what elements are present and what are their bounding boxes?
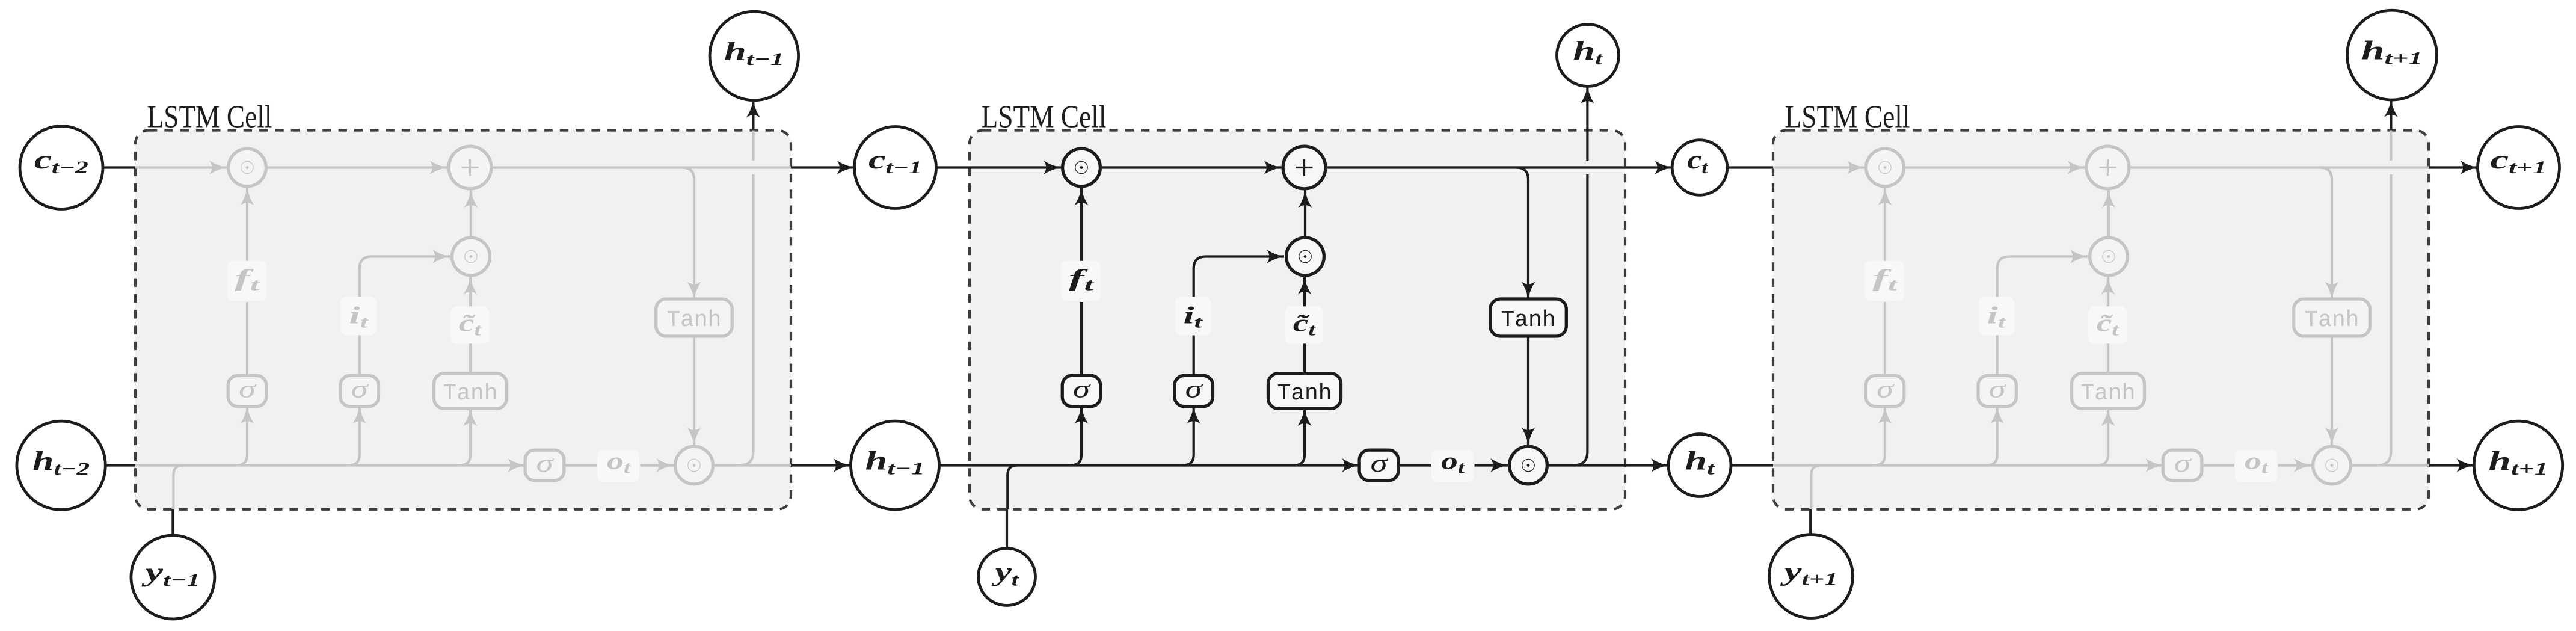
wire o_t to output product (641, 464, 674, 466)
svg-text:σ: σ (1371, 450, 1389, 478)
wire c-lane into first product node (1773, 166, 1864, 168)
elementwise product node (forget gate) (1063, 149, 1101, 186)
elementwise product node (forget gate) (1866, 149, 1904, 186)
label i_t (1175, 297, 1211, 335)
node h_t top output circle (1557, 25, 1619, 87)
wire left cell out to h_t-1 (791, 464, 851, 466)
wire arrow up into h_t-1 top (752, 100, 754, 131)
wire h branch up (crosses c-lane with gap) (1573, 174, 1587, 466)
Tanh box (candidate) (1268, 374, 1341, 409)
node c_t+1 circle (2478, 127, 2560, 209)
wire i_t from sigma up and right to candidate product (1996, 336, 1999, 376)
wire y input joining h-lane (1811, 466, 1821, 509)
Tanh box (candidate) (2072, 374, 2145, 409)
elementwise product node (output gate) (1510, 446, 1548, 484)
sigma box (output gate) (525, 450, 564, 481)
label c~_t (candidate) (1285, 306, 1323, 343)
sum node + (2086, 146, 2129, 189)
wire h_t-2 to left cell (105, 464, 135, 466)
node y_t+1 input circle (1769, 535, 1853, 618)
wire c-lane product to sum node (1905, 166, 2085, 168)
label c~_t (candidate) (2088, 306, 2127, 343)
sum node + (449, 146, 491, 189)
node h_t-1 circle (851, 421, 939, 509)
wire branch from h-lane up to gate box (237, 407, 248, 466)
wire sigma to o_t label (564, 464, 597, 466)
wire branch down to output Tanh (682, 168, 694, 300)
node y_t input circle (979, 549, 1036, 606)
node h_t+1 top output circle (2347, 10, 2437, 100)
wire branch down to output Tanh (2320, 168, 2332, 300)
svg-text:σ: σ (536, 450, 555, 478)
wire c-lane out of sum node (1327, 166, 1626, 168)
label o_t (2235, 450, 2277, 482)
wire f_t from sigma up to product node (1884, 302, 1886, 375)
elementwise product node (input gate x candidate) (1286, 238, 1324, 275)
svg-text:Tanh: Tanh (1277, 381, 1332, 407)
wire h branch up (crosses c-lane with gap) (2377, 174, 2391, 466)
wire h branch up (crosses c-lane with gap) (739, 174, 753, 466)
label o_t (1431, 450, 1474, 482)
wire y input joining h-lane (173, 466, 183, 509)
wire c-lane product to sum node (268, 166, 447, 168)
svg-text:LSTM Cell: LSTM Cell (1785, 100, 1910, 135)
wire y_t up to middle cell (1006, 509, 1008, 549)
elementwise product node (output gate) (2313, 446, 2351, 484)
svg-text:σ: σ (1989, 376, 2008, 404)
wire c-lane product to sum node (1102, 166, 1282, 168)
label f_t (1864, 261, 1904, 301)
wire f_t from sigma up to product node (1080, 302, 1083, 375)
svg-text:σ: σ (1877, 376, 1895, 404)
wire c_t-1 into middle cell (936, 166, 970, 168)
wire branch down to output Tanh (1516, 168, 1528, 300)
wire c-lane out of sum node (493, 166, 792, 168)
wire branch from h-lane up to gate box (1071, 407, 1082, 466)
svg-text:Tanh: Tanh (2305, 307, 2359, 333)
wire y_t+1 up to right cell (1809, 509, 1812, 535)
wire c_t-2 to left cell (103, 166, 135, 168)
wire branch from h-lane up to gate box (349, 407, 360, 466)
sigma box (forget gate) (228, 375, 266, 406)
wire h-lane into cell (1773, 464, 2163, 466)
svg-text:σ: σ (1073, 376, 1092, 404)
svg-text:LSTM Cell: LSTM Cell (147, 100, 272, 135)
node h_t-1 top output circle (710, 11, 799, 100)
wire candidate product up to sum node (2107, 191, 2110, 236)
wire branch from h-lane up to gate box (2098, 408, 2109, 465)
node y_t-1 input circle (131, 535, 215, 619)
svg-text:Tanh: Tanh (443, 381, 498, 407)
sigma box (forget gate) (1062, 375, 1101, 406)
Tanh box (candidate) (434, 374, 507, 409)
wire branch from h-lane up to gate box (1987, 407, 1997, 466)
node h_t circle (1668, 434, 1731, 497)
Tanh box (output activation) (1490, 299, 1567, 336)
wire i_t from sigma up and right to candidate product (358, 336, 361, 376)
node h_t+1 circle (2474, 421, 2562, 509)
sigma box (output gate) (1359, 450, 1398, 481)
wire y input joining h-lane (1007, 466, 1017, 509)
elementwise product node (output gate) (675, 446, 713, 484)
wire candidate c~ from Tanh up to product (1303, 343, 1306, 374)
wire c_t into right cell (1727, 166, 1773, 168)
wire left cell out to c_t-1 (791, 166, 855, 168)
wire candidate product up to sum node (1304, 191, 1306, 236)
wire branch from h-lane up to gate box (1294, 408, 1305, 465)
wire branch from h-lane up to gate box (1875, 407, 1886, 466)
elementwise product node (input gate x candidate) (2090, 238, 2128, 275)
sum node + (1283, 146, 1326, 189)
wire h-lane out of output product (2352, 464, 2429, 466)
wire c-lane into first product node (135, 166, 227, 168)
wire candidate product up to sum node (470, 191, 472, 236)
elementwise product node (input gate x candidate) (452, 238, 490, 275)
wire Tanh down to output product node (693, 336, 695, 445)
node h_t-2 input circle (17, 421, 105, 509)
wire branch from h-lane up to gate box (1183, 407, 1194, 466)
wire h-lane out of output product (1549, 464, 1625, 466)
svg-text:Tanh: Tanh (2081, 381, 2136, 407)
svg-text:σ: σ (351, 376, 370, 404)
LSTM cell dashed border (970, 131, 1625, 509)
label f_t (227, 261, 266, 301)
wire candidate c~ from Tanh up to product (2107, 343, 2109, 374)
label f_t (1061, 261, 1101, 301)
wire Tanh down to output product node (2331, 336, 2333, 445)
label i_t (1978, 297, 2014, 335)
wire c-lane into first product node (970, 166, 1061, 168)
Tanh box (output activation) (2294, 299, 2370, 336)
svg-text:Tanh: Tanh (667, 307, 722, 333)
svg-text:σ: σ (2174, 450, 2193, 478)
wire i_t from sigma up and right to candidate product (1193, 336, 1195, 376)
label c~_t (candidate) (450, 306, 489, 343)
wire arrow up into h_t top (1586, 87, 1588, 131)
wire h-lane out of output product (715, 464, 791, 466)
svg-text:σ: σ (1185, 376, 1204, 404)
LSTM cell background (135, 131, 791, 509)
label i_t (340, 297, 377, 335)
wire right cell out to h_t+1 (2429, 464, 2474, 466)
svg-text:LSTM Cell: LSTM Cell (982, 100, 1107, 135)
wire y_t-1 up to left cell (171, 509, 174, 535)
Tanh box (output activation) (656, 299, 733, 336)
wire arrow up into h_t+1 top (2390, 100, 2392, 131)
LSTM cell dashed border (1773, 131, 2429, 509)
wire middle cell out to c_t (1625, 166, 1672, 168)
node c_t-1 circle (855, 127, 936, 209)
sigma box (input gate) (1978, 375, 2017, 406)
sigma box (input gate) (1175, 375, 1213, 406)
LSTM cell dashed border (135, 131, 791, 509)
elementwise product node (forget gate) (229, 149, 266, 186)
svg-text:σ: σ (239, 376, 257, 404)
wire o_t to output product (1475, 464, 1508, 466)
wire h_t-1 into middle cell (939, 464, 970, 466)
wire h-lane into cell (970, 464, 1359, 466)
wire f_t from sigma up to product node (246, 302, 248, 375)
wire c-lane out of sum node (2131, 166, 2429, 168)
node c_t circle (1672, 140, 1727, 195)
wire h_t into right cell (1731, 464, 1773, 466)
node c_t-2 input circle (20, 126, 103, 209)
sigma box (input gate) (340, 375, 379, 406)
label o_t (597, 450, 639, 482)
wire o_t to output product (2278, 464, 2312, 466)
LSTM cell background (970, 131, 1625, 509)
sigma box (forget gate) (1866, 375, 1904, 406)
wire Tanh down to output product node (1527, 336, 1529, 445)
wire candidate c~ from Tanh up to product (469, 343, 472, 374)
wire right cell out to c_t+1 (2429, 166, 2478, 168)
wire h-lane into cell (135, 464, 525, 466)
wire sigma to o_t label (1398, 464, 1431, 466)
LSTM cell background (1773, 131, 2429, 509)
sigma box (output gate) (2163, 450, 2202, 481)
wire branch from h-lane up to gate box (460, 408, 471, 465)
svg-text:Tanh: Tanh (1501, 307, 1556, 333)
wire sigma to o_t label (2202, 464, 2234, 466)
wire middle cell out to h_t (1625, 464, 1668, 466)
